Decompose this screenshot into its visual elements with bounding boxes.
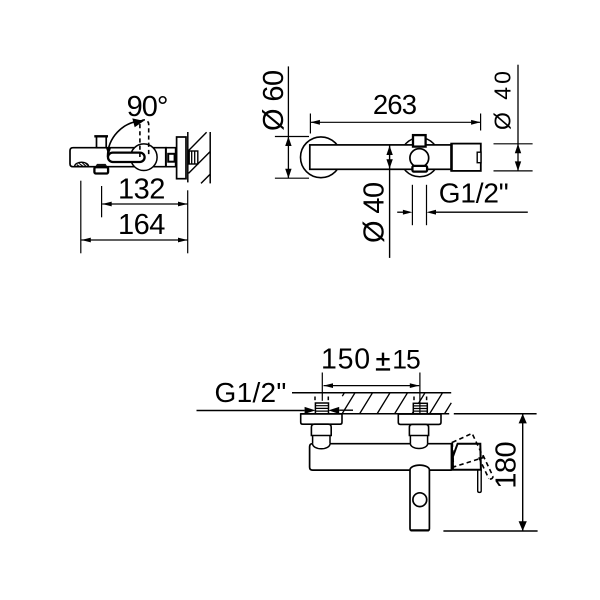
dia60 dim line — [287, 66, 289, 178]
handle base (solid) — [453, 444, 481, 470]
wall face line — [187, 132, 189, 182]
svg-text:180: 180 — [491, 442, 523, 489]
right escutcheon cup — [398, 414, 441, 424]
dim 263 ticks — [309, 114, 311, 134]
ext line mid (132) — [101, 186, 103, 217]
left inlet pipe — [313, 436, 330, 444]
svg-text:90°: 90° — [127, 91, 168, 123]
lever pivot circle — [131, 144, 158, 171]
dia40 right ext lines — [494, 143, 533, 145]
spout — [410, 465, 429, 530]
lever (horizontal position) — [108, 153, 145, 162]
dia40 mid dim line — [389, 145, 391, 258]
G1/2 arrows — [397, 211, 403, 213]
svg-text:Ø 40: Ø 40 — [490, 68, 516, 130]
left end circle — [301, 137, 342, 178]
adapter inner square — [168, 154, 174, 162]
spout body bar — [70, 148, 166, 167]
dim line 150 — [324, 385, 420, 387]
ext line left (164) — [80, 181, 82, 254]
svg-text:263: 263 — [373, 89, 417, 120]
svg-text:Ø 60: Ø 60 — [258, 71, 290, 131]
wall hatch — [189, 132, 211, 183]
dim line 132 — [102, 203, 187, 205]
dia40 right dim line — [517, 65, 519, 171]
G1/2 leader line — [197, 410, 305, 412]
svg-text:150: 150 — [321, 343, 371, 375]
G1/2 leader arrow right-pointing — [305, 407, 316, 414]
left escutcheon cup — [301, 414, 342, 424]
spout diverter circle — [413, 493, 427, 507]
right inlet pipe — [410, 436, 427, 444]
handle grip (open position, dashed) — [479, 455, 493, 478]
faucet body — [310, 444, 452, 470]
cartridge bottom cap — [412, 166, 427, 172]
svg-text:Ø 40: Ø 40 — [358, 183, 390, 243]
block tab — [477, 152, 481, 163]
svg-text:G1/2": G1/2" — [439, 178, 509, 209]
ext line wall (dims) — [187, 190, 189, 253]
svg-text:G1/2": G1/2" — [215, 377, 287, 408]
block joint thick line — [450, 144, 452, 171]
mirrored arrow left-pointing — [328, 407, 339, 414]
left union hidden thread dashes — [314, 397, 316, 401]
right wall block — [451, 144, 481, 171]
cartridge circle — [410, 149, 429, 168]
handle base (open position, dashed) — [452, 433, 483, 467]
right union nut — [409, 424, 428, 435]
middle escutcheon circle — [400, 138, 439, 177]
arc arrow lower — [106, 148, 111, 155]
wall hatch — [342, 393, 451, 414]
lower knob body — [94, 167, 108, 173]
dim 180 line — [522, 414, 524, 531]
left union thread block — [315, 403, 328, 414]
cartridge knob — [413, 135, 426, 147]
arc arrow upper — [132, 118, 144, 127]
aerator dome — [75, 162, 89, 166]
wall adapter section — [166, 148, 176, 167]
wall bottom line — [301, 413, 450, 415]
bar end joint thick line — [165, 148, 167, 167]
bottom ext line (spout end) — [443, 530, 537, 532]
diverter knob (top) body — [97, 136, 107, 147]
body right edge thick — [451, 444, 453, 470]
diverter knob (top) cap — [94, 135, 108, 137]
faucet body bar — [310, 145, 451, 169]
left union nut — [311, 424, 331, 435]
dim line 263 — [310, 121, 480, 123]
right union hidden thread dashes — [413, 397, 415, 401]
mirrored arrow stub line — [339, 409, 353, 411]
wall top line — [292, 392, 451, 394]
dia60 ext lines — [275, 136, 309, 138]
dim 150 ext lines — [321, 373, 323, 401]
G1/2 ticks — [411, 185, 413, 225]
lower knob neck — [95, 164, 108, 168]
wall nipple — [189, 151, 198, 164]
lever (raised position, dashed) — [140, 120, 149, 157]
dim line 164 — [81, 239, 187, 241]
handle grip (solid, closed position) — [478, 470, 482, 492]
svg-text:164: 164 — [118, 209, 165, 241]
spout bottom thick — [411, 529, 429, 531]
right union thread block — [413, 403, 427, 413]
rotation arc — [108, 121, 142, 157]
wall escutcheon plate — [177, 137, 186, 179]
wall back line — [209, 132, 211, 183]
svg-text:15: 15 — [392, 344, 420, 374]
aerator hatch — [77, 162, 88, 166]
svg-text:132: 132 — [118, 174, 165, 206]
nipple ribs — [192, 151, 195, 164]
